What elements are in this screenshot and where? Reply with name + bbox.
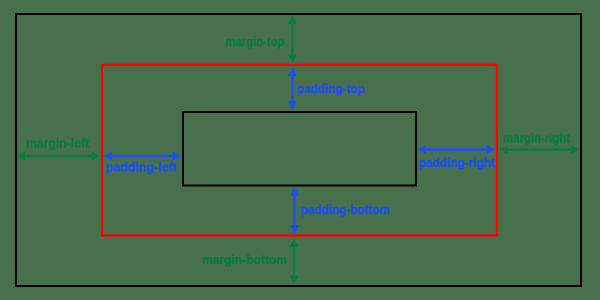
svg-text:margin-right: margin-right	[503, 131, 571, 146]
arrow padding-right	[418, 145, 496, 154]
arrow padding-bottom	[290, 187, 299, 235]
svg-text:padding-bottom: padding-bottom	[301, 202, 390, 217]
svg-text:margin-left: margin-left	[26, 136, 90, 151]
arrow padding-top	[288, 67, 297, 110]
content box (inner black rectangle)	[183, 112, 416, 186]
border edge (red rectangle)	[102, 65, 497, 236]
svg-text:padding-top: padding-top	[297, 81, 365, 96]
arrow margin-bottom	[290, 238, 299, 285]
arrow margin-right	[499, 145, 580, 154]
arrow padding-left	[104, 152, 182, 161]
svg-text:margin-bottom: margin-bottom	[202, 252, 287, 267]
arrow margin-top	[288, 15, 297, 64]
svg-text:padding-left: padding-left	[106, 160, 178, 175]
svg-text:padding-right: padding-right	[419, 155, 496, 170]
svg-text:margin-top: margin-top	[226, 34, 285, 49]
arrow margin-left	[17, 152, 101, 161]
